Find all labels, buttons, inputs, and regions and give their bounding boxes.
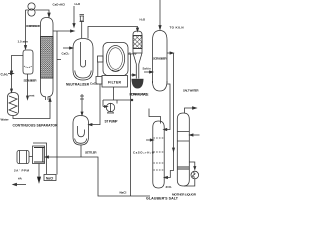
svg-text:31%: 31%	[166, 185, 172, 189]
svg-text:CONTINUOUS SEPARATOR: CONTINUOUS SEPARATOR	[13, 123, 59, 127]
svg-text:SCRUBBER: SCRUBBER	[153, 57, 167, 61]
scrubber overhead to recycle line	[167, 52, 173, 54]
H2O feed line into neutralizer	[73, 6, 75, 24]
svg-text:CaO+HCl: CaO+HCl	[53, 3, 66, 7]
svg-text:CaCl₂: CaCl₂	[62, 52, 71, 56]
nozzle fitting N1	[80, 15, 85, 22]
cooler E1	[8, 93, 19, 116]
svg-text:#A: #A	[18, 177, 23, 181]
K2 right inlet arrow	[193, 134, 200, 136]
svg-text:H₂O: H₂O	[140, 18, 146, 22]
svg-text:FILTER: FILTER	[108, 81, 122, 85]
svg-text:TO KILN: TO KILN	[170, 26, 184, 30]
wire feed into K1 dome	[149, 109, 161, 124]
svg-text:SCRUBBER: SCRUBBER	[24, 79, 38, 83]
flanged pipe below neutralizer	[80, 94, 84, 103]
settler bottoms	[80, 145, 82, 157]
svg-text:vent: vent	[29, 94, 34, 98]
wire compressor discharge to tower top	[35, 10, 49, 13]
kiln feed line top right	[159, 0, 161, 26]
svg-text:CaCl₂: CaCl₂	[90, 82, 99, 86]
svg-text:SALT WATER: SALT WATER	[183, 89, 199, 93]
compressor C1	[28, 3, 35, 10]
feed arrow C2H4	[8, 73, 14, 75]
product arrow left	[17, 184, 27, 186]
svg-text:NaCl: NaCl	[46, 176, 53, 180]
arrow into absorber drum	[24, 46, 26, 50]
slurry outlet filter to furnace line	[128, 54, 131, 196]
absorber drum D1	[23, 50, 33, 74]
wire tower bottoms long line	[56, 31, 58, 175]
svg-text:1.5 atm: 1.5 atm	[18, 40, 29, 44]
inlet arrow into settler from filter	[92, 84, 100, 125]
svg-text:COMPRESSOR: COMPRESSOR	[26, 24, 40, 28]
svg-text:Slurry: Slurry	[129, 52, 138, 56]
wire settler to HX and down	[49, 157, 151, 196]
column K2 evaporator	[177, 113, 189, 180]
filter F1	[103, 43, 128, 76]
wire cooler to tower bottom	[13, 102, 50, 119]
svg-text:MOTHER LIQUOR: MOTHER LIQUOR	[172, 193, 197, 197]
column K1 glauber crystallizer	[153, 121, 164, 182]
black down arrow	[38, 164, 40, 178]
svg-text:GLAUBER'S SALT: GLAUBER'S SALT	[146, 197, 179, 201]
NaCl product box	[44, 175, 56, 181]
svg-text:Water: Water	[1, 118, 10, 122]
tower side outlet to neutralizer feed	[53, 30, 71, 32]
svg-text:2A' PPM: 2A' PPM	[14, 169, 30, 173]
filter left stub upper	[98, 56, 104, 62]
column K1 feed arrow	[146, 139, 150, 141]
inlet arrow to neutralizer	[63, 47, 70, 49]
settler / crystallizer V2	[73, 116, 89, 146]
svg-text:C₂H₄: C₂H₄	[1, 73, 9, 77]
steam pump P1	[103, 100, 131, 107]
scrubber inlet arrow	[144, 71, 150, 73]
HX box assembly	[33, 143, 47, 174]
K2 bottoms pump P3	[189, 162, 195, 167]
vent line from drum bottom	[27, 74, 29, 96]
filter base box	[102, 76, 128, 88]
furnace T2	[133, 31, 142, 36]
wire drum to cooler	[12, 56, 24, 90]
svg-text:ST PUMP: ST PUMP	[105, 120, 119, 124]
svg-text:Salt in: Salt in	[143, 67, 152, 71]
wire scrubber bottoms to column K1	[167, 84, 170, 130]
overhead line neutralizer to furnace	[88, 27, 138, 39]
filter bottoms to pump	[113, 87, 115, 100]
junction node	[131, 99, 133, 101]
K2 overhead	[185, 108, 193, 114]
feed drum left	[17, 151, 29, 164]
svg-text:ROTARY FURNACE: ROTARY FURNACE	[130, 92, 150, 96]
neutralizer V1	[73, 39, 93, 81]
svg-text:NaCl: NaCl	[120, 190, 127, 194]
carbonating tower T1	[41, 18, 54, 91]
svg-text:CaSO₄+H₂O: CaSO₄+H₂O	[133, 151, 155, 155]
scrubber T3	[153, 31, 168, 84]
filter left stub lower	[96, 77, 102, 85]
svg-text:H₂O: H₂O	[75, 2, 81, 6]
svg-text:NEUTRALIZER: NEUTRALIZER	[66, 83, 90, 87]
wire compressor suction line	[26, 10, 29, 46]
svg-text:SETTLER: SETTLER	[85, 151, 97, 155]
